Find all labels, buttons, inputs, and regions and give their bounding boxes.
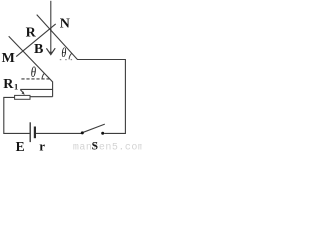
- svg-text:M: M: [2, 51, 15, 66]
- svg-text:E: E: [16, 139, 25, 152]
- svg-text:R: R: [3, 77, 14, 92]
- svg-text:B: B: [34, 42, 43, 57]
- svg-text:θ: θ: [61, 44, 66, 60]
- svg-text:S: S: [92, 141, 98, 152]
- svg-text:R: R: [26, 26, 37, 41]
- svg-text:manfen5.com: manfen5.com: [73, 141, 142, 152]
- svg-text:1: 1: [14, 82, 18, 92]
- svg-text:θ: θ: [31, 63, 37, 80]
- svg-text:r: r: [39, 138, 45, 152]
- svg-text:N: N: [60, 17, 70, 32]
